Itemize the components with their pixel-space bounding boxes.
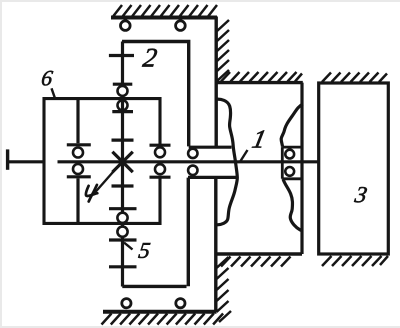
label 2 — [142, 49, 157, 67]
flexible wheel 1 left outline — [216, 99, 238, 225]
label 6 — [41, 71, 53, 86]
output bearing block — [282, 147, 302, 179]
ceiling hatching — [113, 5, 217, 17]
label 1 — [252, 130, 265, 147]
wave generator sleeve — [188, 147, 237, 177]
bearing — [155, 164, 165, 174]
label 5 — [138, 243, 150, 258]
wall hatching lower — [217, 257, 232, 322]
idler shaft left — [76, 99, 79, 224]
gear tick on housing 6 right wall — [150, 144, 171, 147]
floor (fixed support bottom) — [103, 310, 217, 314]
bearing — [73, 164, 83, 174]
central vertical shaft — [121, 42, 124, 287]
label 4 — [86, 185, 97, 202]
frame support bearing top — [176, 21, 186, 31]
gear on central shaft above housing 6 — [113, 83, 133, 86]
rotating frame 2/5 — [122, 42, 189, 147]
sleeve bearing — [188, 166, 197, 175]
middle housing right side — [300, 83, 303, 254]
middle housing bottom ledge — [215, 252, 302, 255]
gearbox 6 housing — [44, 99, 160, 224]
gear tick — [67, 143, 91, 146]
box 3 hatching bottom — [322, 256, 388, 266]
bearing — [118, 86, 128, 96]
gear on central shaft (bottom, inside frame 5) — [109, 265, 137, 268]
frame support bearing bottom — [122, 299, 131, 308]
sleeve bearing — [188, 149, 197, 158]
right wall lower segment — [214, 177, 217, 312]
floor hatching — [102, 314, 224, 325]
leader 6 — [52, 88, 56, 98]
gear tick — [150, 176, 171, 179]
ceiling (fixed support top) — [111, 16, 217, 20]
leader 1 — [240, 150, 247, 162]
bearing — [118, 100, 128, 110]
right wall upper segment — [214, 17, 217, 148]
ledge hatching top — [221, 72, 302, 82]
flexible wheel 1 right outline upper — [281, 104, 303, 147]
leader 4 — [95, 164, 121, 194]
gear on central shaft above cross — [112, 139, 134, 142]
frame support bearing top — [121, 21, 131, 31]
frame support bearing bottom — [176, 299, 185, 308]
ledge hatching bottom — [221, 257, 291, 267]
leader 5 — [124, 243, 133, 250]
bearing — [117, 227, 127, 237]
bearing — [285, 167, 294, 176]
main shaft axis — [8, 160, 319, 163]
box 3 (output brake) — [319, 83, 389, 254]
bearing — [285, 150, 294, 159]
gear tick — [67, 175, 91, 178]
flexible wheel 1 right outline lower — [283, 179, 303, 231]
middle housing top ledge — [216, 81, 303, 84]
gear on central shaft above housing 6 bottom — [109, 207, 137, 210]
gear on central shaft below housing 6 top — [112, 110, 133, 113]
box 3 hatching top — [322, 73, 387, 83]
bearing — [73, 148, 83, 158]
bearing — [117, 213, 127, 223]
gear on central shaft below cross — [112, 184, 134, 187]
bearing — [155, 147, 165, 157]
gear on central shaft (top, inside frame 2) — [109, 54, 134, 57]
input shaft end bar — [6, 149, 9, 169]
label 3 — [354, 187, 367, 202]
wall hatching upper — [217, 20, 229, 81]
friction cross joint 4 — [112, 152, 132, 172]
gear 5 on central shaft — [109, 238, 137, 241]
